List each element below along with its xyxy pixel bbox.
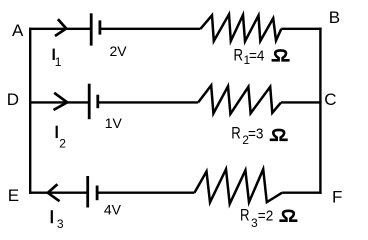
svg-text:C: C [324, 90, 336, 109]
svg-text:2V: 2V [110, 43, 128, 59]
svg-text:R: R [231, 125, 241, 143]
svg-text:D: D [7, 90, 19, 109]
svg-text:A: A [12, 21, 24, 40]
svg-text:=3: =3 [248, 126, 264, 143]
svg-text:E: E [8, 186, 19, 205]
svg-text:3: 3 [57, 217, 64, 228]
svg-text:=4: =4 [249, 48, 265, 65]
svg-text:1V: 1V [105, 115, 123, 131]
svg-text:=2: =2 [258, 208, 274, 225]
svg-text:R: R [240, 207, 250, 225]
svg-text:F: F [332, 187, 342, 206]
svg-text:B: B [329, 8, 340, 27]
svg-text:R: R [234, 47, 244, 65]
svg-text:2: 2 [59, 136, 66, 150]
svg-text:1: 1 [55, 55, 62, 69]
svg-text:4V: 4V [104, 201, 122, 217]
